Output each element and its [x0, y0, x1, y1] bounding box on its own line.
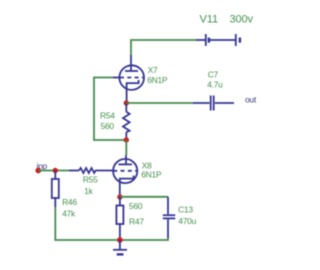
wire R46 to ground rail — [55, 207, 120, 240]
node K7 junction — [124, 100, 129, 105]
svg-text:47k: 47k — [62, 209, 76, 219]
resistor R47 — [116, 197, 123, 240]
svg-text:C7: C7 — [208, 69, 219, 79]
node ground junction — [117, 237, 123, 243]
wire grid X7 — [94, 78, 126, 141]
svg-text:300v: 300v — [230, 14, 254, 26]
svg-text:6N1P: 6N1P — [141, 169, 162, 179]
svg-text:R54: R54 — [100, 111, 115, 121]
svg-text:C13: C13 — [178, 204, 193, 214]
capacitor C7 — [193, 96, 234, 111]
svg-text:R46: R46 — [62, 197, 77, 207]
svg-text:560: 560 — [129, 201, 143, 211]
svg-text:4.7u: 4.7u — [207, 80, 223, 90]
svg-text:X7: X7 — [148, 65, 158, 75]
wire R54 to X8 anode — [125, 140, 127, 155]
wire C13 to ground rail — [120, 238, 168, 240]
resistor R46 — [52, 171, 59, 208]
svg-text:R55: R55 — [83, 175, 98, 185]
node inp pin — [35, 168, 41, 174]
svg-text:1k: 1k — [84, 186, 93, 196]
triode U X8 — [113, 155, 137, 197]
resistor R54 — [123, 103, 130, 140]
wire anode X7 to battery — [131, 40, 196, 55]
node X8 cathode junction — [117, 194, 122, 199]
svg-text:6N1P: 6N1P — [147, 75, 168, 85]
svg-text:V11: V11 — [200, 14, 218, 26]
wire cathode to C13 — [120, 196, 168, 198]
wire cathode X7 to C7 — [126, 102, 193, 104]
capacitor C13 — [163, 197, 175, 238]
resistor R55 — [69, 168, 113, 173]
node R46 top junction — [53, 168, 58, 173]
ground — [113, 240, 127, 254]
svg-text:R47: R47 — [129, 217, 144, 227]
svg-text:560: 560 — [101, 121, 115, 131]
svg-text:out: out — [245, 95, 257, 105]
battery V11 — [196, 34, 240, 46]
node R54 bottom junction — [124, 137, 129, 142]
triode U X7 — [113, 55, 144, 103]
svg-text:470u: 470u — [178, 216, 196, 226]
wire inp to R55 — [38, 170, 69, 172]
